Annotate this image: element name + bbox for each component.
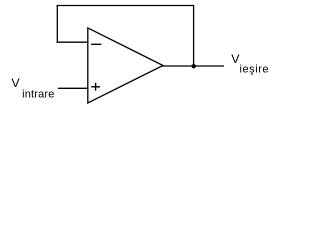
wire: feedback left vertical xyxy=(56,5,58,43)
label: V_intrare (input voltage) xyxy=(11,76,54,100)
svg-text:ieşire: ieşire xyxy=(240,63,270,75)
label: V_iesire (output voltage) xyxy=(231,52,269,75)
op-amp U1 triangle body xyxy=(88,28,163,103)
wire: inverting input segment xyxy=(57,41,89,43)
node: output junction dot xyxy=(192,64,196,68)
op-amp U1 inverting input marker (minus) xyxy=(91,43,101,45)
wire: feedback top horizontal xyxy=(57,5,194,7)
svg-text:intrare: intrare xyxy=(22,88,54,100)
svg-text:V: V xyxy=(11,76,20,90)
wire: feedback right vertical xyxy=(193,5,195,66)
wire: non-inverting input segment xyxy=(58,87,88,89)
op-amp U1 non-inverting input marker (plus) xyxy=(91,83,100,91)
wire: output horizontal xyxy=(163,65,225,67)
